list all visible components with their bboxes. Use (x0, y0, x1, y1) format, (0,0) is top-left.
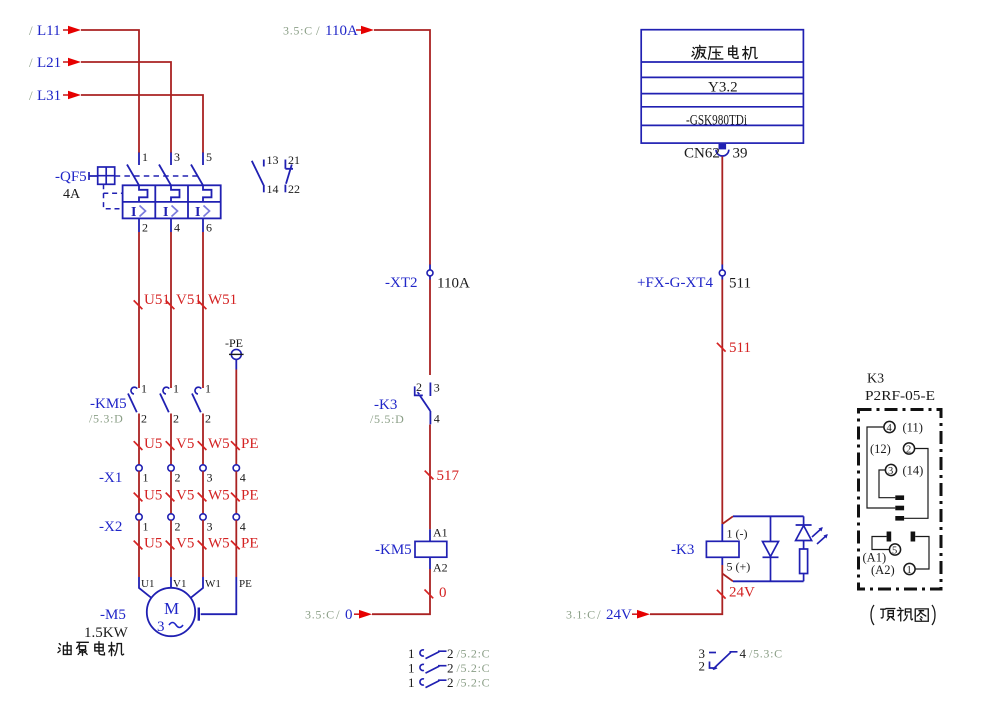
svg-text:110A: 110A (437, 276, 470, 292)
svg-text:1 (-): 1 (-) (727, 527, 748, 541)
svg-text:/: / (29, 55, 33, 70)
svg-text:24V: 24V (606, 607, 632, 623)
motor PE wire (201, 577, 237, 614)
sheet ref 3.1:C (566, 607, 601, 622)
svg-text:1: 1 (173, 382, 179, 396)
contactor KM5 pole 1 (128, 382, 147, 426)
svg-text:2: 2 (175, 471, 181, 485)
svg-text:4: 4 (174, 221, 180, 235)
svg-text:(A2): (A2) (871, 563, 895, 577)
arrow 0 (354, 610, 372, 619)
relay contact K3 pin2 seat (415, 386, 423, 395)
svg-text:4: 4 (240, 471, 246, 485)
svg-text:5: 5 (892, 546, 897, 557)
svg-text:3.5:C: 3.5:C (283, 24, 313, 38)
terminal XT4 circle (719, 270, 725, 276)
svg-text:1: 1 (907, 565, 912, 576)
wire label W5 row3 (198, 536, 230, 552)
wire label V5 row2 (166, 488, 195, 504)
svg-text:5 (+): 5 (+) (727, 560, 751, 574)
resistor R (800, 549, 808, 581)
terminal X2-2 (168, 514, 181, 534)
svg-text:-K3: -K3 (374, 397, 397, 413)
socket wire 4 to middle pad (867, 427, 895, 508)
relay contact K3 blade (420, 396, 430, 411)
socket wire 3 to top pad (879, 470, 895, 498)
socket pin circle 4 (884, 421, 895, 434)
relay contact K3 pin4 stub (429, 411, 431, 424)
wire label U5 row1 (134, 436, 163, 452)
terminal X1-4 (233, 465, 246, 485)
svg-text:24V: 24V (729, 585, 755, 601)
connector CN62 socket arc (716, 150, 729, 156)
socket wire 2 to bottom pad (904, 449, 928, 519)
terminal X2-4 (233, 514, 246, 534)
breaker QF5 pole 2 pin stub (170, 153, 172, 166)
socket wire right pin to 1 (915, 537, 929, 570)
svg-text:2: 2 (699, 659, 706, 674)
svg-text:Y3.2: Y3.2 (708, 80, 738, 96)
motor M5 circle (147, 588, 195, 636)
svg-text:P2RF-05-E: P2RF-05-E (865, 389, 935, 404)
terminal XT2 stub (429, 265, 431, 280)
wire label U5 row2 (134, 488, 163, 504)
relay contact K3 label (370, 397, 405, 426)
wire pole1 QF5 to KM5 (138, 232, 140, 388)
socket contact pad bottom (895, 516, 904, 521)
svg-text:K3: K3 (867, 372, 884, 387)
wires X2 to motor (139, 520, 236, 577)
top rail of K3 network (733, 515, 804, 517)
wire label PE row1 (231, 436, 259, 452)
wire L31 (81, 95, 203, 153)
svg-text:517: 517 (437, 468, 460, 484)
wire XT2 to K3 contact (429, 280, 431, 376)
svg-text:PE: PE (241, 436, 259, 452)
wire pole3 QF5 to KM5 (202, 232, 204, 388)
terminal X2-1 (136, 514, 149, 534)
motor lead 1 (139, 577, 152, 598)
coil K3 pin1 stub (721, 524, 723, 541)
wire label W5 row2 (198, 488, 230, 504)
GSK980TDi device box (641, 30, 803, 143)
motor 3~ text (157, 619, 183, 635)
magnetic trip I> pole 2 (163, 205, 178, 220)
svg-text:L31: L31 (37, 88, 61, 104)
svg-text:L11: L11 (37, 23, 61, 39)
net label /L11 (29, 23, 61, 39)
thermal element pole 2 (171, 185, 180, 202)
coil KM5 pin A1 stub (429, 529, 431, 541)
breaker QF5 bottom stubs (139, 218, 203, 232)
svg-text:21: 21 (288, 153, 300, 167)
svg-text:1: 1 (142, 150, 148, 164)
svg-text:W51: W51 (208, 292, 237, 308)
svg-text:2: 2 (173, 412, 179, 426)
svg-text:2: 2 (906, 445, 911, 456)
svg-text:2: 2 (205, 412, 211, 426)
svg-text:V5: V5 (176, 488, 194, 504)
svg-text:W5: W5 (208, 488, 230, 504)
motor lead 3 (190, 577, 203, 598)
terminal X1-2 (168, 465, 181, 485)
LED indicator (796, 516, 812, 549)
aux contact 21-22 (285, 153, 300, 196)
svg-text:(14): (14) (903, 464, 924, 478)
contactor KM5 label (89, 396, 127, 426)
relay contact K3 pin3 stub (429, 383, 431, 397)
svg-text:-X2: -X2 (99, 519, 122, 535)
svg-text:V51: V51 (176, 292, 202, 308)
socket pin circle 2 (903, 443, 914, 456)
wire label PE row2 (231, 488, 259, 504)
coil K3 pin5 stub (721, 557, 723, 565)
magnetic trip I> pole 3 (195, 205, 210, 220)
svg-text:22: 22 (288, 182, 300, 196)
contactor KM5 pole 3 (192, 382, 211, 426)
coil K3 (706, 541, 739, 557)
svg-text:/: / (597, 607, 601, 622)
svg-text:-KM5: -KM5 (375, 542, 412, 558)
svg-text:3: 3 (434, 381, 440, 395)
arrow 24V (632, 610, 650, 619)
svg-text:4: 4 (434, 412, 440, 426)
wire PE down (235, 370, 237, 465)
socket wire left pin to 5 (872, 537, 889, 550)
terminal X2-3 (200, 514, 213, 534)
svg-text:511: 511 (729, 276, 751, 292)
svg-text:I: I (163, 205, 168, 220)
wire KM5 coil to 0 (429, 557, 431, 569)
svg-text:1: 1 (408, 675, 415, 690)
terminal XT4 stub (721, 265, 723, 280)
breaker QF5 trip linkage dashed (104, 184, 123, 208)
thermal element pole 1 (139, 185, 148, 202)
svg-text:PE: PE (241, 488, 259, 504)
svg-text:3: 3 (157, 619, 165, 635)
svg-text:/5.3:C: /5.3:C (749, 647, 783, 661)
svg-text:I: I (195, 205, 200, 220)
svg-text:4: 4 (887, 423, 893, 434)
svg-text:5: 5 (206, 150, 212, 164)
svg-text:-XT2: -XT2 (385, 275, 418, 291)
magnetic trip I> pole 1 (131, 205, 146, 220)
svg-text:4A: 4A (63, 187, 81, 202)
breaker QF5 trip unit box (123, 185, 221, 218)
breaker QF5 pole 2 blade (159, 165, 171, 186)
socket pin circle 1 (904, 563, 915, 576)
svg-text:PE: PE (241, 536, 259, 552)
svg-text:1: 1 (408, 646, 415, 661)
svg-text:1: 1 (141, 382, 147, 396)
svg-text:3: 3 (207, 520, 213, 534)
wire A2 to 0 rail (372, 569, 430, 614)
wire pole2 QF5 to KM5 (170, 232, 172, 388)
wire label 24V (717, 585, 755, 601)
wire label PE row3 (231, 536, 259, 552)
svg-text:-QF5: -QF5 (55, 169, 87, 185)
PE earth symbol (229, 349, 244, 369)
svg-text:-K3: -K3 (671, 542, 694, 558)
wire label V51 (166, 292, 202, 309)
motor frame ground tick (198, 608, 200, 621)
svg-text:+FX-G-XT4: +FX-G-XT4 (637, 275, 713, 291)
wire 110A feed (374, 30, 430, 265)
svg-text:-GSK980TDi: -GSK980TDi (686, 113, 747, 129)
svg-text:CN62: CN62 (684, 146, 720, 162)
arrow L31 (63, 91, 81, 100)
svg-text:U51: U51 (144, 292, 170, 308)
branch to LED network top (722, 516, 733, 524)
wire K3 to 24V (650, 565, 722, 614)
svg-text:3: 3 (888, 466, 893, 477)
terminal X1-3 (200, 465, 213, 485)
svg-text:L21: L21 (37, 55, 61, 71)
svg-text:2: 2 (416, 380, 422, 394)
terminal XT2 circle (427, 270, 433, 276)
sheet ref 3.5:C top (283, 23, 320, 38)
svg-text:13: 13 (267, 153, 279, 167)
svg-text:V5: V5 (176, 536, 194, 552)
breaker QF5 linkage dashed (115, 175, 198, 177)
svg-text:-X1: -X1 (99, 470, 122, 486)
KM5 contact mirror row3 (408, 675, 490, 690)
svg-text:4: 4 (240, 520, 246, 534)
svg-text:4: 4 (740, 646, 747, 661)
sheet ref 3.5:C bottom (305, 607, 340, 622)
thermal element pole 3 (203, 185, 212, 202)
arrow 110A (356, 26, 374, 35)
svg-text:1: 1 (408, 661, 415, 676)
box title hydraulic motor (692, 45, 757, 59)
svg-text:/: / (316, 23, 320, 38)
svg-text:/: / (29, 88, 33, 103)
wire label W5 row1 (198, 436, 230, 452)
svg-text:0: 0 (345, 607, 353, 623)
svg-text:1: 1 (143, 520, 149, 534)
svg-text:14: 14 (267, 182, 279, 196)
svg-text:/5.5:D: /5.5:D (370, 412, 405, 426)
socket coil pin left (887, 532, 892, 542)
svg-text:2: 2 (141, 412, 147, 426)
svg-text:U5: U5 (144, 488, 162, 504)
svg-text:2: 2 (447, 646, 454, 661)
svg-text:M: M (164, 599, 179, 618)
net label /L21 (29, 55, 61, 71)
wire label W51 (198, 292, 237, 309)
breaker QF5 pole 3 pin stub (202, 153, 204, 166)
breaker QF5 pole 3 blade (191, 165, 203, 186)
svg-text:(11): (11) (903, 421, 923, 435)
wire XT4 to K3 coil (721, 280, 723, 525)
svg-text:-M5: -M5 (100, 607, 126, 623)
svg-text:U5: U5 (144, 536, 162, 552)
wire label 517 (425, 468, 460, 484)
breaker QF5 manual operator (89, 167, 115, 184)
socket coil pin right (911, 532, 916, 542)
svg-text:I: I (131, 205, 136, 220)
KM5 contact mirror row1 (408, 646, 490, 661)
wire L21 (81, 62, 171, 153)
svg-text:3.5:C: 3.5:C (305, 608, 335, 622)
wire label 511 (717, 340, 751, 356)
svg-text:1: 1 (143, 471, 149, 485)
socket contact pad top (895, 495, 904, 500)
svg-text:A2: A2 (433, 561, 448, 575)
svg-text:/: / (336, 607, 340, 622)
K3 contact mirror 3-2-4 (699, 646, 783, 674)
svg-text:-PE: -PE (225, 336, 243, 350)
svg-text:A1: A1 (433, 526, 448, 540)
aux contact 13-14 (252, 153, 279, 196)
breaker QF5 pole 1 blade (127, 165, 139, 186)
svg-text:2: 2 (447, 675, 454, 690)
socket pin circle 5 (889, 544, 900, 557)
contactor KM5 pole 2 (160, 382, 179, 426)
svg-text:V5: V5 (176, 436, 194, 452)
wire CN62 to XT4 (721, 157, 723, 265)
KM5 contact mirror row2 (408, 661, 490, 676)
svg-text:1: 1 (205, 382, 211, 396)
wire label U5 row3 (134, 536, 163, 552)
svg-text:W5: W5 (208, 536, 230, 552)
svg-text:2: 2 (142, 221, 148, 235)
branch to LED network bottom (722, 574, 733, 582)
breaker QF5 pole 1 pin stub (138, 153, 140, 166)
socket contact pad middle (895, 506, 904, 511)
relay socket border (859, 410, 942, 590)
coil KM5 (415, 541, 447, 557)
svg-text:/5.2:C: /5.2:C (457, 661, 491, 675)
breaker QF5 label (55, 169, 87, 202)
svg-text:3: 3 (207, 471, 213, 485)
motor lead 2 (170, 577, 172, 588)
bottom rail of K3 network (733, 580, 804, 582)
svg-text:110A: 110A (325, 23, 358, 39)
svg-text:511: 511 (729, 340, 751, 356)
terminal X1-1 (136, 465, 149, 485)
svg-text:/: / (29, 23, 33, 38)
wire K3 to KM5 coil (429, 425, 431, 530)
wire label V5 row1 (166, 436, 195, 452)
wires KM5 to X1 (139, 414, 203, 465)
net label /L31 (29, 88, 61, 104)
svg-text:2: 2 (175, 520, 181, 534)
svg-text:3.1:C: 3.1:C (566, 608, 596, 622)
wires X1 to X2 (139, 471, 236, 514)
motor label oil pump (58, 642, 124, 656)
svg-text:U5: U5 (144, 436, 162, 452)
svg-text:1.5KW: 1.5KW (84, 625, 129, 641)
top view caption (871, 605, 935, 625)
wire label V5 row3 (166, 536, 195, 552)
svg-text:/5.3:D: /5.3:D (89, 412, 124, 426)
relay contact K3 pin2 tick (417, 392, 419, 394)
socket pin circle 3 (885, 464, 896, 477)
svg-text:/5.2:C: /5.2:C (457, 676, 491, 690)
svg-text:-KM5: -KM5 (90, 396, 127, 412)
arrow L21 (63, 58, 81, 67)
wire label U51 (134, 292, 170, 309)
svg-text:(12): (12) (870, 442, 891, 456)
svg-text:0: 0 (439, 585, 447, 601)
wire L11 (81, 30, 139, 153)
svg-text:W1: W1 (205, 578, 221, 590)
svg-text:/5.2:C: /5.2:C (457, 647, 491, 661)
svg-text:W5: W5 (208, 436, 230, 452)
svg-text:2: 2 (447, 661, 454, 676)
svg-text:3: 3 (174, 150, 180, 164)
svg-text:39: 39 (733, 146, 748, 162)
svg-text:6: 6 (206, 221, 212, 235)
LED emission arrows (812, 527, 828, 544)
svg-text:PE: PE (239, 578, 252, 590)
wire label 0 (425, 585, 447, 601)
svg-text:U1: U1 (141, 578, 154, 590)
flyback diode D (763, 516, 779, 581)
connector CN62 pin square (719, 144, 727, 150)
arrow L11 (63, 26, 81, 35)
